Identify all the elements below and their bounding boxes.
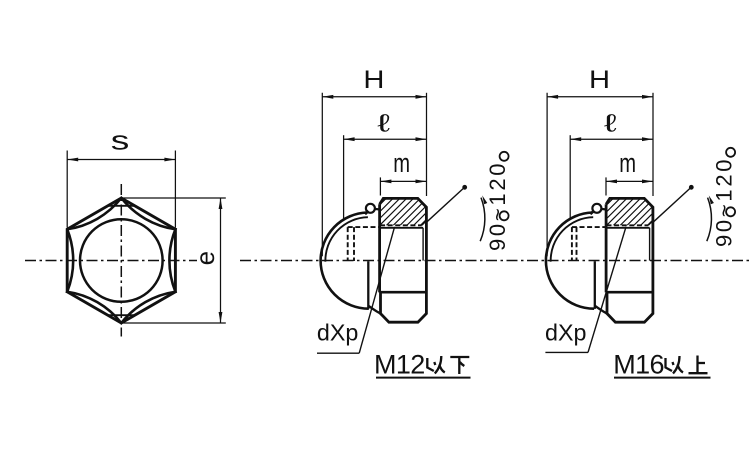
kanji jou (ue) (689, 356, 708, 374)
svg-text:M12: M12 (374, 350, 425, 380)
a: countersink chamfer edge (422, 221, 426, 225)
svg-text:ℓ: ℓ (377, 109, 390, 137)
svg-text:H: H (363, 66, 384, 93)
underline M12 ika (376, 377, 471, 379)
b: thread major line dashed (607, 224, 649, 226)
b: hole line solid (606, 227, 650, 229)
thread hole circle (80, 219, 163, 302)
leader dXp (middle) (317, 352, 359, 354)
angle vertex dot (right) (689, 185, 694, 190)
main horizontal centerline through both side views (240, 260, 750, 262)
b: hex nut body outline (606, 198, 653, 322)
b: weld fillet (595, 306, 607, 314)
dimension s extension lines (66, 151, 68, 228)
a: weld lip bump (366, 204, 375, 213)
svg-text:m: m (393, 148, 410, 179)
svg-text:dXp: dXp (545, 319, 587, 345)
underline M16 ijou (614, 377, 711, 379)
a: dome outer arc (321, 213, 369, 309)
angle vertex dot (middle) (462, 185, 467, 190)
a: hex face edge line (380, 291, 427, 294)
dimension s line with arrows (67, 159, 175, 161)
svg-text:dXp: dXp (317, 320, 359, 346)
leader dXp (right) (545, 351, 588, 353)
a: hex nut body outline (380, 198, 427, 322)
angle arc (middle) (480, 198, 485, 242)
a: hidden thread hole end dashed (348, 226, 380, 228)
b: countersink cone edge in hole (649, 228, 651, 261)
b: cap rim edge (594, 261, 596, 309)
kanji ka (shita) (450, 357, 469, 374)
a: cap rim edge (367, 261, 369, 309)
dim H (right) (546, 93, 548, 256)
left view vertical centerline (120, 184, 122, 337)
a: thread major line dashed (380, 224, 422, 226)
left view horizontal centerline (25, 260, 197, 262)
svg-text:90~120: 90~120 (712, 157, 737, 247)
kanji i (of ika) (427, 356, 445, 374)
angle leader ray (right) (653, 187, 692, 222)
a: dome inner arc (cap shell section) (325, 217, 368, 262)
top vertex chamfer chord (108, 205, 135, 207)
angle leader ray (middle) (426, 187, 465, 222)
b: countersink chamfer edge (648, 221, 652, 225)
b: weld lip bump (592, 204, 601, 213)
a: countersink cone edge in hole (422, 228, 424, 261)
svg-text:e: e (190, 251, 220, 265)
dim l (right) (569, 135, 571, 218)
dim m (right) (605, 177, 607, 195)
hexagon outline of nut front view (67, 198, 175, 323)
svg-text:M16: M16 (613, 350, 664, 380)
dim l (middle) (343, 135, 345, 218)
svg-text:H: H (589, 66, 610, 93)
svg-text:ℓ: ℓ (604, 109, 617, 137)
b: dome inner arc (cap shell section) (551, 217, 594, 262)
angle arc (right) (707, 198, 712, 242)
dim H (middle) (321, 93, 323, 256)
a: hole line solid (379, 227, 423, 229)
svg-text:90~120: 90~120 (485, 161, 510, 251)
b: dome outer arc (546, 213, 594, 309)
b: hidden thread hole end dashed (572, 226, 607, 228)
kanji i (of ijou) (666, 356, 684, 374)
svg-text:m: m (619, 148, 636, 179)
a: weld fillet (368, 306, 380, 314)
b: hex face edge line (606, 291, 653, 294)
dimension e extension lines (121, 197, 226, 199)
chamfer arcs on hexagon faces (67, 198, 175, 323)
dim m (middle) (379, 177, 381, 195)
dimension e line with arrows (220, 198, 222, 323)
bottom vertex chamfer chord (108, 314, 135, 316)
svg-text:s: s (111, 126, 130, 155)
